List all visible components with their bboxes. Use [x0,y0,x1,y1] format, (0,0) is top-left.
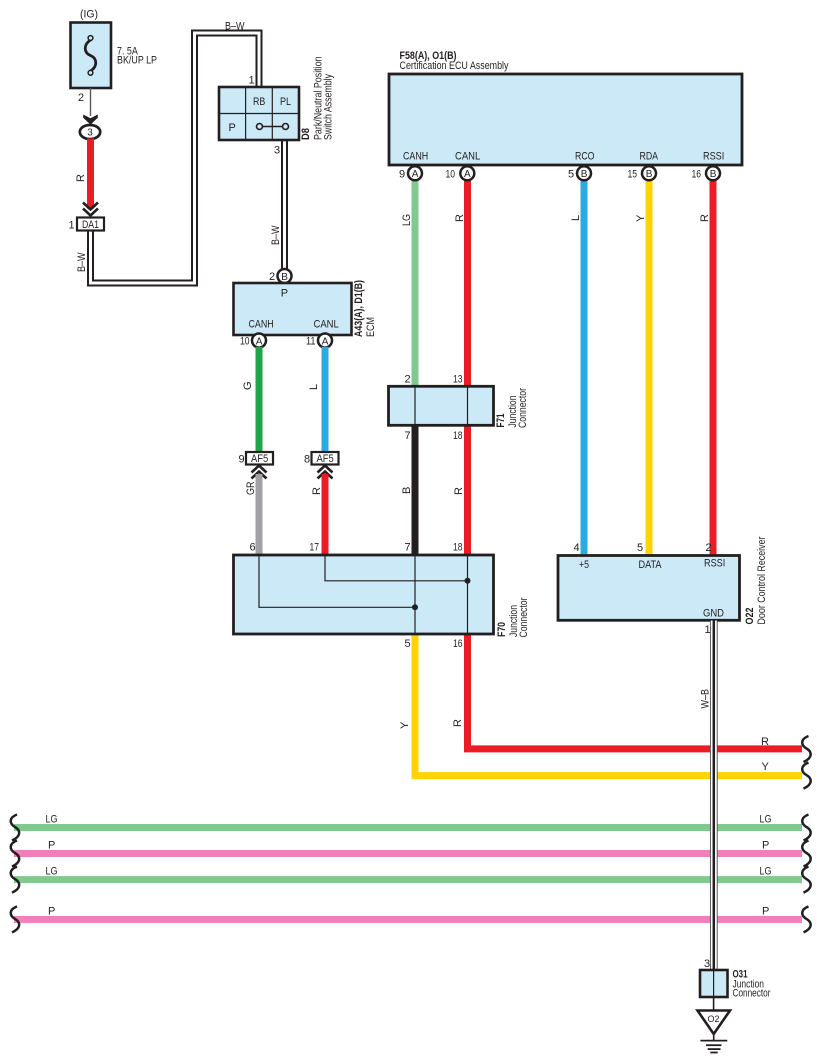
wire P horizontal 1 [14,850,802,857]
svg-text:18: 18 [453,430,463,442]
ECM A43(A), D1(B) [234,283,352,335]
svg-text:Switch Assembly: Switch Assembly [323,74,335,140]
continuation squiggle (P1 left) [11,841,19,867]
arrow into node 3 [83,115,98,125]
continuation squiggle (R right) [802,736,810,762]
node 3 oval [80,125,100,139]
pin 10 circle A (ECM CANH) [252,334,266,348]
svg-text:DA1: DA1 [82,219,99,231]
wire Y (F70 pin 5 to right edge) [415,634,802,776]
svg-text:B: B [401,487,413,494]
svg-text:L: L [570,215,582,221]
svg-text:ECM: ECM [365,317,377,337]
svg-text:B: B [710,169,717,180]
wire R (ECU RSSI to O22 pin 2) [710,180,717,556]
svg-text:DATA: DATA [639,559,663,571]
wire B (F71 pin 7 to F70 pin 7) [412,425,419,555]
wire R (fuse to DA1) [87,139,94,209]
svg-text:A43(A), D1(B): A43(A), D1(B) [353,280,365,337]
svg-text:G: G [242,381,254,390]
svg-text:CANH: CANH [249,319,274,331]
switch D8 Park/Neutral Position Switch Assembly [219,87,299,140]
chevron splice into DA1 [83,203,98,216]
svg-text:LG: LG [46,866,58,878]
svg-text:W–B: W–B [700,689,712,709]
svg-text:4: 4 [574,542,580,554]
svg-text:B: B [581,169,588,180]
svg-text:GR: GR [245,481,257,495]
svg-text:+5: +5 [579,559,589,571]
wire G (ECM pin 10 to AF5) [256,347,263,452]
svg-text:Door Control Receiver: Door Control Receiver [756,536,768,624]
svg-text:L: L [308,384,320,390]
svg-text:18: 18 [453,542,463,554]
wire L (ECM pin 11 to AF5) [322,347,329,452]
svg-text:P: P [48,906,55,918]
svg-text:5: 5 [637,542,643,554]
svg-text:16: 16 [692,168,702,180]
svg-text:AF5: AF5 [251,453,268,465]
pin 9 circle A (ECU CANH) [408,166,422,180]
svg-text:O22: O22 [744,608,756,625]
svg-text:P: P [762,906,769,918]
svg-text:BK/UP LP: BK/UP LP [117,55,157,67]
svg-text:13: 13 [453,374,463,386]
continuation squiggle (LG1 right) [802,815,810,841]
svg-text:D8: D8 [300,128,312,140]
svg-text:11: 11 [306,336,316,348]
svg-text:Certification ECU Assembly: Certification ECU Assembly [400,60,509,72]
svg-text:RB: RB [253,96,265,108]
svg-text:R: R [454,214,466,222]
svg-text:LG: LG [760,866,772,878]
svg-text:17: 17 [310,542,320,554]
svg-text:RSSI: RSSI [703,151,724,163]
svg-text:8: 8 [304,454,310,466]
svg-text:R: R [75,174,87,182]
svg-text:1: 1 [249,75,255,87]
pin 11 circle A (ECM CANL) [318,334,332,348]
svg-text:B–W: B–W [225,21,245,33]
wire fuse to node 3 [90,88,92,116]
svg-text:15: 15 [628,168,638,180]
wire R (ECU CANL to F71 pin 13 to F70 pin 18) [464,180,471,555]
ground symbol hash marks [713,1034,715,1040]
svg-text:Y: Y [635,214,647,222]
connector AF5 pin 9 [246,452,273,465]
svg-text:P: P [229,122,236,134]
svg-text:3: 3 [274,145,280,157]
svg-text:Connector: Connector [518,597,530,637]
ground O2 triangle [698,1011,731,1035]
svg-text:CANL: CANL [455,151,480,163]
svg-text:A: A [322,336,329,347]
svg-text:LG: LG [760,814,772,826]
svg-text:R: R [452,719,464,727]
svg-text:R: R [453,487,465,495]
svg-text:P: P [762,840,769,852]
svg-text:GND: GND [703,608,724,620]
svg-text:CANL: CANL [314,319,339,331]
connector DA1 [77,218,104,231]
svg-text:PL: PL [280,96,291,108]
svg-text:A: A [464,169,471,180]
svg-text:A: A [256,336,263,347]
junction connector F70 [234,555,494,634]
wire GR (AF5 to F70 pin 6) [256,474,263,555]
fuse (IG) 7.5A BK/UP LP [71,23,112,89]
svg-text:AF5: AF5 [317,453,334,465]
svg-text:3: 3 [704,958,710,970]
continuation squiggle (P2 right) [802,906,810,932]
svg-text:RSSI: RSSI [704,558,725,570]
svg-text:RCO: RCO [575,151,595,163]
door control receiver O22 [558,556,740,621]
svg-text:CANH: CANH [403,151,428,163]
svg-text:F70: F70 [496,622,508,637]
continuation squiggle (LG2 right) [802,867,810,893]
svg-text:9: 9 [239,454,245,466]
svg-text:9: 9 [399,168,405,180]
svg-text:(IG): (IG) [80,9,98,21]
junction connector F71 [389,386,494,425]
continuation squiggle (P2 left) [11,906,19,932]
svg-text:Connector: Connector [517,388,529,428]
svg-text:Y: Y [762,761,770,773]
pin 2 circle B (ECM) [278,269,292,283]
wire R (F70 pin 16 to right edge) [468,634,803,749]
svg-text:LG: LG [46,814,58,826]
wire W-B (O22 GND to O31) [710,621,718,971]
svg-text:B: B [281,272,288,283]
continuation squiggle (LG2 left) [11,867,19,893]
svg-text:3: 3 [87,128,93,139]
svg-text:6: 6 [250,542,256,554]
wire L (ECU RCO to O22 pin 4) [581,180,588,556]
chevron splice below AF5 pin 9 [252,466,267,479]
svg-text:2: 2 [269,271,275,283]
wire B-W from D8 pin 3 to ECM pin 2 [281,140,288,271]
svg-text:Y: Y [399,721,411,729]
svg-text:16: 16 [453,638,463,650]
svg-text:B–W: B–W [76,252,88,272]
wire B-W from DA1 to D8 pin 1 [91,33,260,283]
wire LG (ECU CANH to F71 pin 2) [412,180,419,387]
svg-text:2: 2 [706,542,712,554]
wire P horizontal 2 [14,916,802,923]
svg-text:2: 2 [78,92,84,104]
continuation squiggle (Y right) [802,763,810,789]
svg-text:10: 10 [240,336,250,348]
svg-text:A: A [412,169,419,180]
svg-text:R: R [761,736,769,748]
wire R (AF5 to F70 pin 17) [322,474,329,555]
svg-text:5: 5 [405,638,411,650]
svg-text:7: 7 [405,430,411,442]
pin 15 circle B (ECU RDA) [642,166,656,180]
svg-text:2: 2 [405,374,411,386]
continuation squiggle (P1 right) [802,841,810,867]
pin 10 circle A (ECU CANL) [460,166,474,180]
Certification ECU Assembly F58(A), O1(B) [389,74,742,165]
wire LG horizontal 1 [14,824,802,831]
svg-text:B: B [646,169,653,180]
svg-text:RDA: RDA [640,151,659,163]
pin 16 circle B (ECU RSSI) [706,166,720,180]
chevron splice below AF5 pin 8 [318,466,333,479]
svg-text:7: 7 [405,542,411,554]
svg-text:1: 1 [705,624,711,636]
svg-text:R: R [311,487,323,495]
wire LG horizontal 2 [14,876,802,883]
junction connector O31 [700,970,728,997]
pin 5 circle B (ECU RCO) [577,166,591,180]
svg-text:F71: F71 [495,414,507,428]
svg-text:Connector: Connector [733,988,771,1000]
continuation squiggle (LG1 left) [11,815,19,841]
svg-text:B–W: B–W [270,225,282,245]
svg-text:LG: LG [401,214,413,226]
svg-text:P: P [281,288,288,300]
connector AF5 pin 8 [312,452,339,465]
svg-text:O2: O2 [708,1014,720,1025]
svg-text:10: 10 [446,168,456,180]
svg-text:1: 1 [69,220,75,232]
svg-text:P: P [48,840,55,852]
wire O31 to ground [713,997,715,1010]
svg-text:R: R [699,214,711,222]
wire Y (ECU RDA to O22 pin 5) [646,180,653,556]
svg-text:5: 5 [568,168,574,180]
